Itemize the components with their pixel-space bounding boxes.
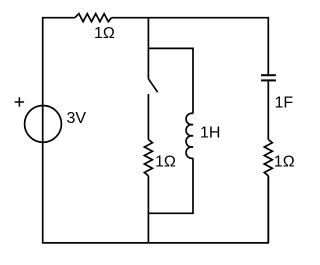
wire bottom xyxy=(43,242,269,244)
wire run: top-left segment, left vertical, bottom wire, lower right vertical xyxy=(43,18,269,243)
svg-text:1Ω: 1Ω xyxy=(94,25,115,42)
wire run: top segment right of R1 and upper right vertical xyxy=(112,18,269,75)
wire run: switch top terminal, inner top horizontal, inductor top wire xyxy=(148,48,193,113)
capacitor C1 bottom plate xyxy=(261,79,276,81)
svg-text:1Ω: 1Ω xyxy=(155,154,176,171)
resistor R3 zigzag xyxy=(264,140,272,176)
svg-text:1F: 1F xyxy=(275,94,294,111)
wire run: inductor bottom wire, inner bottom horizontal, drop to bottom wire xyxy=(148,158,193,243)
wire R3 to bottom wire xyxy=(267,176,269,243)
wire middle branch drop from top xyxy=(147,18,149,49)
resistor R2 zigzag xyxy=(144,140,152,176)
switch S1 blade xyxy=(148,79,157,92)
voltage source V1 plus sign xyxy=(15,97,24,106)
svg-text:1Ω: 1Ω xyxy=(274,154,295,171)
wire C1 to R3 xyxy=(267,81,269,139)
inductor L1 coils xyxy=(186,113,193,158)
resistor R1 zigzag xyxy=(75,14,112,22)
svg-text:3V: 3V xyxy=(67,110,87,127)
capacitor C1 top plate xyxy=(261,74,276,76)
wire R2 to bottom junction xyxy=(147,176,149,214)
wire switch to R2 xyxy=(147,94,149,140)
svg-text:1H: 1H xyxy=(200,124,220,141)
voltage source V1 circle xyxy=(25,106,62,143)
